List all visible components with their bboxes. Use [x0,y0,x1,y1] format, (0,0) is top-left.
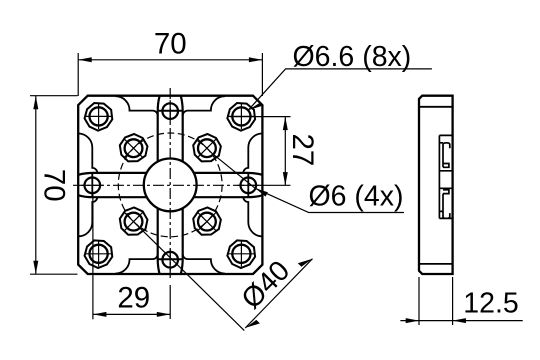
horizontal centerline [73,184,248,186]
clip lower [439,188,452,218]
pocket contour bottom-left [78,197,157,273]
svg-text:27: 27 [286,133,319,166]
clip spine [438,135,440,218]
pitch circle (dashed) [118,133,222,237]
corner bolt bottom-left [85,240,113,268]
arrow down [283,172,288,185]
extension line bottom [30,273,78,275]
corner bolt top-right [227,103,255,131]
side view outline [419,96,453,274]
extension line left [92,194,94,319]
diagonal bolt bottom-right [193,207,221,234]
inner line through right hole [247,173,249,197]
diagonal bolt top-right [193,134,221,161]
dimension line [400,320,522,322]
extension line right [452,277,454,325]
inner line through left hole [91,173,93,197]
arrow up [283,117,288,130]
horizontal centerline extension [248,184,290,186]
inner line through top hole [158,110,183,112]
leader line to diagonal bolt [213,154,255,188]
inner line through bottom hole [158,258,183,260]
extension line left [418,277,420,325]
leader line from pitch circle [140,228,244,331]
central bore [144,159,197,212]
arrow down [33,261,38,274]
pocket contour bottom-right [183,197,263,273]
leader arrow at top-right bolt [248,103,262,110]
plate outline [78,96,262,274]
edge hole top [159,100,181,122]
edge hole bottom [159,249,181,271]
svg-text:12.5: 12.5 [463,288,518,320]
svg-text:70: 70 [38,169,71,202]
arrow left [93,312,106,317]
arrow right [249,57,262,62]
vertical rib left edge [158,96,160,273]
leader line [248,69,432,110]
vertical centerline [169,88,171,278]
vertical rib right edge [181,96,183,273]
dimension line [93,313,170,315]
arrow left outside [406,318,419,323]
svg-text:Ø6.6 (8x): Ø6.6 (8x) [293,41,412,73]
arrow right outside [453,318,466,323]
horizontal rib bottom edge [79,195,262,197]
extension line right [261,53,263,96]
extension line left [77,53,79,96]
dimension line [284,117,286,186]
dimension line [78,59,262,61]
extension line top [30,95,78,97]
cap line top [419,106,453,108]
arrow right [157,312,170,317]
arrow upper-right [298,259,313,267]
horizontal rib top edge [79,173,262,175]
corner bolt bottom-right [227,240,255,268]
vertical centerline extension [169,285,171,319]
diagonal bolt top-left [120,134,148,161]
arrow lower-left [245,320,260,328]
svg-text:70: 70 [154,28,187,61]
corner bolt top-left [85,103,113,131]
svg-text:Ø6 (4x): Ø6 (4x) [309,180,404,212]
dimension line [35,96,37,275]
dimension line [245,259,312,328]
pocket contour top-left [78,96,157,173]
arrow left [78,57,91,62]
cap line bottom [419,263,453,265]
svg-text:29: 29 [117,282,150,315]
arrow up [33,96,38,109]
diagonal bolt bottom-left [120,207,148,234]
edge hole right [237,174,259,196]
edge hole left [81,174,103,196]
leader arrow at right hole [255,188,268,196]
extension line top [230,116,291,118]
clip upper [439,135,452,170]
pocket contour top-right [183,96,263,173]
leader line [255,188,404,212]
